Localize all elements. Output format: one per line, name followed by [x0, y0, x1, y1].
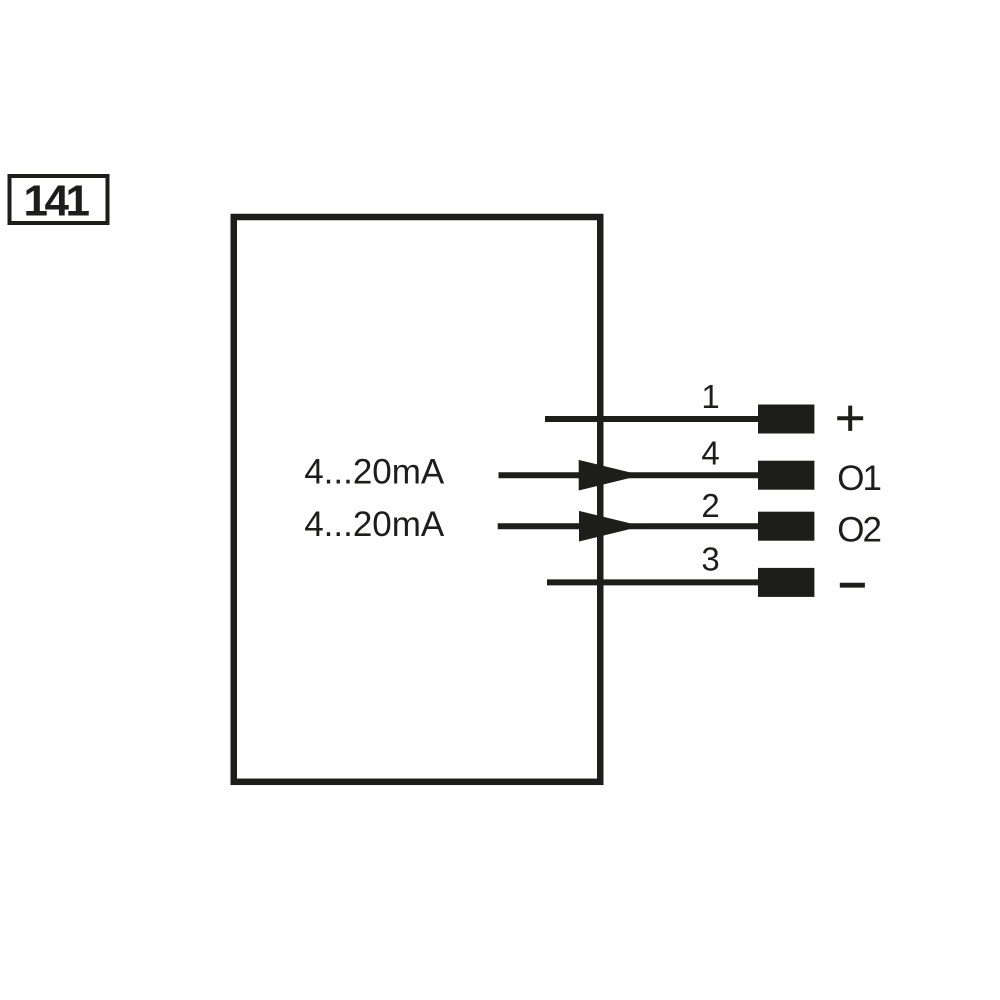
wire pin 4: [499, 472, 759, 478]
svg-text:O1: O1: [837, 459, 880, 498]
figure number box 141: [10, 176, 108, 223]
minus label: [840, 583, 865, 588]
svg-text:141: 141: [24, 177, 90, 226]
wire pin 3: [547, 579, 759, 585]
arrow pin 2: [579, 511, 642, 542]
terminal pin 1: [758, 405, 814, 434]
svg-text:3: 3: [701, 541, 719, 578]
svg-text:O2: O2: [837, 510, 880, 549]
terminal pin 4: [758, 461, 814, 490]
terminal pin 3: [758, 568, 814, 597]
svg-text:1: 1: [701, 378, 719, 415]
svg-text:4...20mA: 4...20mA: [304, 453, 445, 492]
svg-text:4: 4: [701, 435, 719, 472]
svg-text:4...20mA: 4...20mA: [304, 505, 445, 544]
wire pin 2: [498, 523, 759, 529]
svg-text:2: 2: [701, 487, 719, 524]
arrow pin 4: [579, 460, 642, 491]
terminal pin 2: [758, 512, 814, 541]
device outline: [234, 217, 601, 782]
plus label: [837, 416, 863, 420]
wire pin 1: [545, 416, 759, 422]
